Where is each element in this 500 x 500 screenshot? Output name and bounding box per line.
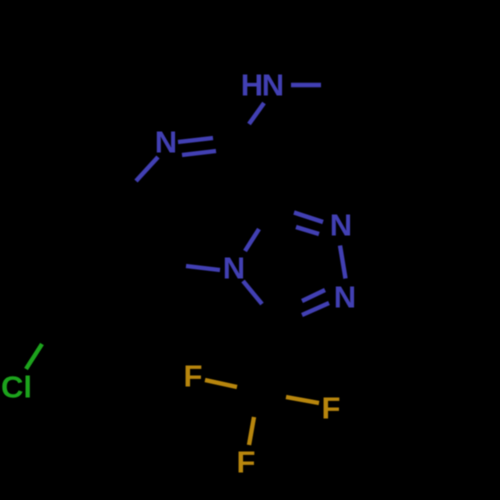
svg-text:F: F — [322, 391, 341, 426]
svg-text:Cl: Cl — [1, 370, 32, 405]
svg-text:N: N — [155, 125, 177, 160]
svg-text:N: N — [330, 208, 352, 243]
svg-text:N: N — [334, 279, 356, 314]
svg-text:N: N — [262, 68, 284, 103]
svg-text:F: F — [184, 359, 203, 394]
svg-text:F: F — [237, 445, 256, 480]
svg-text:N: N — [223, 251, 245, 286]
svg-text:H: H — [241, 68, 263, 103]
